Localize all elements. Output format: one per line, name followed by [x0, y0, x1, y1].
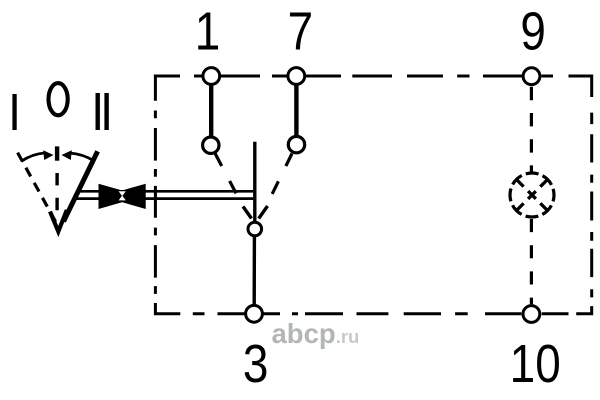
actuator position label 0: [49, 83, 68, 115]
actuator dashed travel limit (pos I): [18, 153, 57, 223]
housing border right (dash-dot): [576, 113, 592, 314]
pivot circle: [248, 222, 262, 236]
mechanical linkage double line: [77, 190, 254, 193]
detent symbol right triangle: [102, 184, 146, 209]
svg-text:9: 9: [520, 1, 546, 61]
terminal 7: [288, 68, 305, 85]
lamp cross: [516, 179, 547, 210]
travel arc left arrowhead: [43, 150, 53, 160]
wire terminal 1 to fixed contact: [209, 85, 213, 137]
terminal 9: [523, 68, 540, 85]
wire terminal 7 to fixed contact: [294, 85, 298, 137]
dashed wire terminal 9 to lamp: [530, 87, 533, 172]
terminal 3: [246, 305, 263, 322]
svg-text:7: 7: [288, 1, 314, 61]
actuator centre position tick: [55, 146, 59, 160]
wire pivot to terminal 3: [252, 237, 256, 305]
svg-text:10: 10: [510, 333, 561, 393]
actuator position label II: [96, 93, 100, 130]
actuator centre dashed line: [55, 173, 58, 210]
terminal 1: [203, 68, 220, 85]
svg-text:3: 3: [243, 333, 269, 393]
svg-text:1: 1: [195, 1, 221, 61]
actuator centre line arrowhead: [50, 210, 67, 232]
terminal 10: [523, 306, 540, 323]
common contact arm: [253, 142, 256, 221]
travel arc left: [21, 153, 45, 161]
lamp circle (dashed): [510, 173, 554, 217]
dashed wire lamp to terminal 10: [530, 219, 533, 304]
moving contact V right arm: [259, 206, 268, 219]
dashed contact path position I: [215, 154, 236, 194]
detent white hourglass: [119, 191, 126, 196]
travel arc right: [70, 153, 94, 161]
actuator lever: [64, 151, 98, 221]
travel arc right arrowhead: [62, 150, 72, 160]
actuator position label I: [12, 94, 16, 130]
dashed contact path position II: [272, 154, 292, 194]
housing border left (dash-dot): [154, 75, 157, 294]
moving contact V left arm: [243, 207, 252, 219]
fixed contact circle (pos II, from terminal 7): [288, 136, 304, 152]
housing border bottom (dash-dot): [155, 303, 568, 314]
housing border top (dash-dot): [154, 76, 592, 97]
fixed contact circle (pos I, from terminal 1): [203, 137, 219, 153]
detent symbol left triangle: [99, 184, 143, 209]
